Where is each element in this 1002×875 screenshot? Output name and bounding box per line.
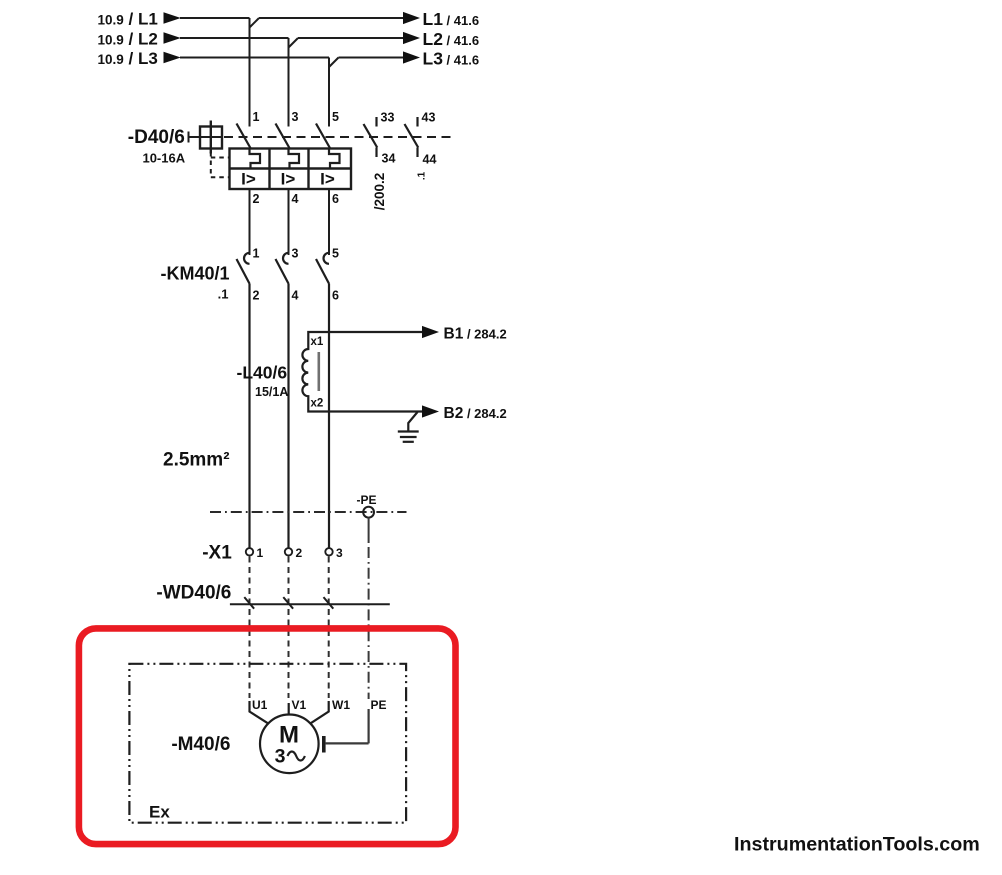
svg-text:.1: .1 xyxy=(218,287,229,302)
svg-text:34: 34 xyxy=(382,152,396,166)
terminal X1:3 circle xyxy=(325,548,332,555)
svg-text:-PE: -PE xyxy=(357,493,377,507)
svg-text:5: 5 xyxy=(332,110,339,124)
breaker manual actuator square xyxy=(200,121,222,154)
cable tick wire 2 xyxy=(283,597,293,609)
node tap L1 diagonal xyxy=(250,18,260,28)
wire L3 outgoing horizontal xyxy=(339,57,405,59)
wire phase3 vertical drop xyxy=(328,58,330,127)
wire L2 outgoing horizontal xyxy=(298,37,404,39)
breaker thermal element pole 3 xyxy=(329,149,340,169)
wire pole1 to contactor xyxy=(249,189,251,255)
motor lead V1 xyxy=(288,703,290,715)
breaker mechanical linkage dashed line xyxy=(224,136,453,138)
svg-text:10-16A: 10-16A xyxy=(142,150,185,165)
arrow source L2 xyxy=(164,32,181,44)
svg-text:-X1: -X1 xyxy=(202,542,232,563)
svg-text:2: 2 xyxy=(253,289,260,303)
svg-text:3: 3 xyxy=(336,546,343,560)
svg-text:3: 3 xyxy=(292,247,299,261)
wire phase2 vertical drop xyxy=(288,38,290,127)
aux contact 33/34 xyxy=(364,117,378,157)
wire pole2 to contactor xyxy=(288,189,290,255)
svg-text:U1: U1 xyxy=(252,698,268,712)
arrow source L3 xyxy=(164,52,181,64)
PE distribution dash-dot line xyxy=(210,511,407,513)
svg-text:33: 33 xyxy=(381,111,395,125)
svg-text:B1 / 284.2: B1 / 284.2 xyxy=(444,326,507,343)
wire PE vertical dash-dot xyxy=(368,518,370,544)
svg-text:-L40/6: -L40/6 xyxy=(237,362,288,382)
arrow source L1 xyxy=(164,12,181,24)
svg-text:3: 3 xyxy=(275,746,286,768)
svg-text:6: 6 xyxy=(332,192,339,206)
svg-text:M: M xyxy=(279,722,299,749)
svg-text:x1: x1 xyxy=(311,336,324,348)
svg-text:-WD40/6: -WD40/6 xyxy=(156,583,231,604)
svg-text:-KM40/1: -KM40/1 xyxy=(160,264,229,284)
cable tick wire 3 xyxy=(324,597,334,609)
svg-text:.1: .1 xyxy=(417,171,428,180)
current transformer outline with secondary coil xyxy=(302,332,423,412)
motor circle xyxy=(260,715,319,774)
svg-text:44: 44 xyxy=(423,153,437,167)
breaker thermal element pole 1 xyxy=(250,149,261,169)
svg-text:2: 2 xyxy=(296,546,303,560)
ground symbol at B2 xyxy=(398,412,419,442)
svg-text:L1 / 41.6: L1 / 41.6 xyxy=(423,9,480,29)
terminal X1:2 circle xyxy=(285,548,292,555)
motor lead U1 xyxy=(250,701,269,724)
breaker dashed trip link xyxy=(211,152,230,178)
svg-text:43: 43 xyxy=(422,111,436,125)
cable WD40/6 line xyxy=(230,603,390,605)
wire L1 outgoing horizontal xyxy=(259,17,404,19)
arrow dest L2 xyxy=(403,32,420,44)
terminal X1:1 circle xyxy=(246,548,253,555)
svg-text:10.9 / L3: 10.9 / L3 xyxy=(98,49,158,68)
cable wire 3 dashed xyxy=(328,557,330,699)
contactor contact 1/2 xyxy=(237,253,250,548)
svg-text:InstrumentationTools.com: InstrumentationTools.com xyxy=(734,833,980,855)
svg-text:-M40/6: -M40/6 xyxy=(171,734,230,755)
breaker label tie line xyxy=(189,132,223,143)
arrow B2 xyxy=(422,405,439,417)
wire phase1 vertical drop xyxy=(249,18,251,127)
arrow dest L1 xyxy=(403,12,420,24)
svg-text:10.9 / L1: 10.9 / L1 xyxy=(98,9,158,28)
breaker thermal/magnetic box xyxy=(230,149,352,190)
svg-text:1: 1 xyxy=(253,247,260,261)
svg-text:PE: PE xyxy=(371,698,387,712)
wire PE into motor horizontal xyxy=(326,742,369,744)
motor PE terminal bar xyxy=(322,736,326,753)
svg-text:B2 / 284.2: B2 / 284.2 xyxy=(444,405,507,422)
breaker pole 3 blade xyxy=(316,124,331,150)
svg-text:I>: I> xyxy=(241,170,256,189)
aux contact 43/44 xyxy=(405,117,419,157)
svg-text:6: 6 xyxy=(332,289,339,303)
svg-text:5: 5 xyxy=(332,247,339,261)
cable wire 1 dashed xyxy=(249,557,251,699)
wire L3 incoming horizontal xyxy=(180,57,329,59)
breaker pole 1 blade xyxy=(237,124,252,150)
wire L2 incoming horizontal xyxy=(180,37,289,39)
red highlight box xyxy=(79,628,456,844)
cable wire 2 dashed xyxy=(288,557,290,699)
svg-text:2: 2 xyxy=(253,192,260,206)
svg-text:W1: W1 xyxy=(332,698,350,712)
wire PE into motor vertical xyxy=(368,709,370,743)
breaker thermal element pole 2 xyxy=(289,149,300,169)
svg-text:I>: I> xyxy=(320,170,335,189)
svg-text:3: 3 xyxy=(292,110,299,124)
Ex hazardous area boundary box xyxy=(129,664,406,823)
svg-text:10.9 / L2: 10.9 / L2 xyxy=(98,29,158,48)
arrow dest L3 xyxy=(403,51,420,63)
cable tick wire 1 xyxy=(244,597,254,609)
contactor contact 5/6 xyxy=(316,253,329,548)
node PE circle xyxy=(363,507,374,518)
node tap L3 diagonal xyxy=(329,58,339,68)
svg-text:1: 1 xyxy=(257,546,264,560)
svg-text:2.5mm²: 2.5mm² xyxy=(163,449,230,470)
arrow B1 xyxy=(422,326,439,338)
wire pole3 to contactor xyxy=(328,189,330,255)
svg-text:1: 1 xyxy=(253,110,260,124)
breaker pole 2 blade xyxy=(276,124,291,150)
svg-text:/200.2: /200.2 xyxy=(372,173,387,211)
contactor contact 3/4 xyxy=(276,253,289,548)
svg-text:15/1A: 15/1A xyxy=(255,385,288,399)
svg-text:4: 4 xyxy=(292,289,299,303)
svg-text:4: 4 xyxy=(292,192,299,206)
wire L1 incoming horizontal xyxy=(180,17,250,19)
current transformer core bar xyxy=(317,352,320,391)
svg-text:L2 / 41.6: L2 / 41.6 xyxy=(423,29,480,49)
svg-text:-D40/6: -D40/6 xyxy=(128,127,185,148)
svg-text:L3 / 41.6: L3 / 41.6 xyxy=(423,49,480,69)
svg-text:I>: I> xyxy=(281,170,296,189)
motor lead W1 xyxy=(310,701,329,724)
svg-text:x2: x2 xyxy=(311,398,324,410)
motor tilde xyxy=(288,752,305,761)
node tap L2 diagonal xyxy=(289,38,299,48)
svg-text:V1: V1 xyxy=(292,698,307,712)
svg-text:Ex: Ex xyxy=(149,803,170,822)
